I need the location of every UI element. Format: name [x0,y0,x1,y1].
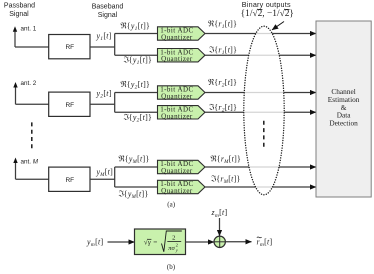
label Im{r2[t]} [209,103,237,114]
svg-text:Detection: Detection [329,119,358,128]
split junction row3 [114,167,116,187]
gain box sqrt(gamma) [135,229,186,255]
svg-text:(a): (a) [167,200,175,208]
svg-text:Signal: Signal [9,11,29,18]
wire to ADC2 [115,54,158,56]
wire ADC2 to big box [205,54,316,56]
RF box row2 [49,92,90,116]
wire ADC5 to big box [205,166,316,168]
label Im{r1[t]} [209,46,237,57]
label rm[t] with tilde [257,237,273,248]
wire RF to split row2 [90,103,115,105]
vertical dots inside ellipse [263,121,265,149]
1-bit ADC Quantizer block 2 [158,48,206,63]
svg-text:Quantizer: Quantizer [161,93,193,101]
wire ym to gain box [108,241,135,243]
ellipse white overlay [244,26,284,195]
ellipse dotted border [244,26,284,195]
wire ADC1 to big box [205,33,316,35]
label Re{y2[t]} [121,80,150,91]
label Re{yM[t]} [119,155,150,166]
svg-text:2: 2 [172,234,175,241]
svg-text:Quantizer: Quantizer [161,112,193,120]
svg-text:ant. M: ant. M [21,159,39,166]
svg-text:Signal: Signal [98,12,118,19]
wire antenna to RF row3 [16,178,49,180]
antenna ant.M [13,158,38,180]
wire zm to adder [219,218,221,236]
1-bit ADC Quantizer block 1 [158,27,206,42]
svg-text:πσ: πσ [168,245,175,252]
svg-text:Passband: Passband [4,3,35,10]
label Re{r2[t]} [208,78,237,89]
svg-text:ant. 1: ant. 1 [21,26,37,33]
label Re{rM[t]} [211,155,241,166]
annotation arrow to ellipse [272,22,284,30]
split junction row1 [114,34,116,56]
split junction row2 [114,93,116,113]
wire to ADC1 [115,33,158,35]
wire antenna to RF row2 [16,103,49,105]
antenna ant.2 [13,80,36,104]
svg-text:Binary outputs: Binary outputs [242,0,291,9]
svg-text:ant. 2: ant. 2 [21,80,37,87]
wire antenna to RF row1 [15,46,49,48]
label Re{y1[t]} [121,22,150,33]
wire to ADC4 [115,111,158,113]
label Im{yM[t]} [119,190,149,201]
wire to ADC6 [115,186,158,188]
svg-text:Quantizer: Quantizer [161,34,193,42]
1-bit ADC Quantizer block 6 [158,180,206,195]
svg-text:Quantizer: Quantizer [161,55,193,63]
RF box row3 [49,167,90,191]
svg-text:RF: RF [65,177,74,184]
wire ADC6 to big box [205,186,316,188]
wire ADC3 to big box [205,92,316,94]
1-bit ADC Quantizer block 5 [158,160,206,175]
svg-text:Quantizer: Quantizer [161,167,193,175]
wire to ADC3 [115,92,158,94]
1-bit ADC Quantizer block 3 [158,86,206,101]
wire gain box to adder [186,241,215,243]
adder circle [214,236,225,247]
svg-text:(b): (b) [167,263,176,271]
1-bit ADC Quantizer block 4 [158,106,206,121]
wire RF to split row1 [90,46,115,48]
svg-text:Baseband: Baseband [92,4,124,11]
RF box row1 [49,35,90,59]
wire RF to split row3 [90,178,115,180]
label Im{y2[t]} [124,113,152,124]
label Im{y1[t]} [124,56,152,67]
antenna ant.1 [13,26,37,48]
svg-text:RF: RF [65,102,74,109]
wire ADC4 to big box [205,111,316,113]
svg-text:RF: RF [65,44,74,51]
vertical dots between row2 and row3 [31,122,33,150]
wire to ADC5 [115,166,158,168]
label Re{r1[t]} [208,20,237,31]
output wire from adder [225,241,251,243]
svg-text:Quantizer: Quantizer [161,187,193,195]
big box Channel Estimation & Data Detection [316,21,371,197]
label Im{rM[t]} [211,175,240,186]
